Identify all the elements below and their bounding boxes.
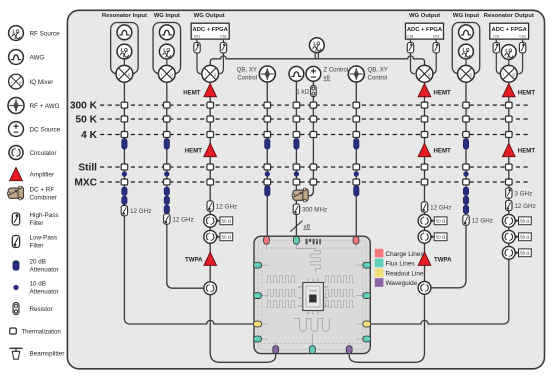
high-pass filter WG output left ch1 xyxy=(194,43,200,53)
legend Thermalization xyxy=(10,328,61,336)
thermalization col E 50 K xyxy=(293,116,300,122)
legend Circulator xyxy=(9,145,56,159)
svg-text:4 K: 4 K xyxy=(81,130,97,141)
thermalization col G 300 K xyxy=(353,102,360,108)
svg-text:Readout Line: Readout Line xyxy=(386,270,424,277)
legend Beamsplitter xyxy=(10,348,65,359)
svg-text:3 GHz: 3 GHz xyxy=(514,190,532,197)
ADC+FPGA box WG output right xyxy=(406,23,444,39)
thermalization col C Still xyxy=(207,164,214,170)
chip port left readout xyxy=(254,321,262,327)
chip port traces xyxy=(261,244,363,345)
svg-text:HEMT: HEMT xyxy=(434,148,452,155)
20dB attenuator col I 4K xyxy=(463,139,468,150)
wire WG output right line xyxy=(349,82,424,362)
chip port top charge left xyxy=(264,236,270,244)
chip legend Flux Lines xyxy=(375,259,415,268)
ADC+FPGA box WG output left xyxy=(191,23,229,39)
thermalization col J 4 K xyxy=(506,132,513,138)
thermalization col I 50 K xyxy=(463,116,470,122)
RF source WG input left xyxy=(159,44,174,59)
10dB attenuator col I xyxy=(464,172,469,177)
chip port bottom flux xyxy=(310,346,316,354)
chip inner trace loop xyxy=(262,248,363,344)
svg-text:300 K: 300 K xyxy=(70,101,98,112)
thermalization col I 4 K xyxy=(463,132,470,138)
thermalization col J Still xyxy=(506,164,513,170)
high-pass filter resonator output ch2 xyxy=(519,43,525,53)
wire WG input left line xyxy=(167,82,204,288)
DC+RF combiner flux xyxy=(292,188,308,202)
10dB attenuator col D xyxy=(265,172,270,177)
AWG resonator input xyxy=(117,25,132,40)
TWPA amplifier right xyxy=(418,252,452,265)
svg-text:ADC + FPGA: ADC + FPGA xyxy=(193,27,229,33)
HEMT amplifier WG output left 4K xyxy=(185,143,217,156)
circulator WG output right 1 xyxy=(418,214,447,227)
chip port right flux 2 xyxy=(363,293,371,299)
legend RF Source xyxy=(9,26,60,41)
svg-text:Thermalization: Thermalization xyxy=(22,330,61,336)
stage line 50 K xyxy=(75,115,531,126)
high-pass filter WG output right ch2 xyxy=(433,43,439,53)
svg-text:ADC + FPGA: ADC + FPGA xyxy=(407,27,443,33)
chip port right flux 1 xyxy=(363,262,371,268)
HEMT amplifier resonator output 300K xyxy=(503,84,536,97)
circulator WG output right 2 xyxy=(418,230,447,243)
x8 bundle marker flux xyxy=(290,221,310,232)
svg-text:10 dB: 10 dB xyxy=(30,281,46,288)
svg-text:WG Output: WG Output xyxy=(409,13,440,19)
thermalization col I Still xyxy=(463,164,470,170)
svg-text:Resonator Output: Resonator Output xyxy=(484,13,534,19)
chip port right readout xyxy=(363,321,371,327)
chip port left flux 3 xyxy=(254,336,262,342)
wire resonator input line xyxy=(124,82,253,324)
IQ mixer WG output right xyxy=(416,65,433,82)
svg-text:IQ Mixer: IQ Mixer xyxy=(30,79,54,86)
thermalization col G Still xyxy=(353,164,360,170)
RF source WG input right xyxy=(459,44,474,59)
chip port top flux xyxy=(294,236,300,244)
20dB attenuator col E 4K xyxy=(294,139,299,150)
svg-text:12 GHz: 12 GHz xyxy=(130,208,151,215)
chip resonator meanders row1 xyxy=(266,276,355,283)
10dB attenuator col A xyxy=(122,172,127,177)
20dB attenuator col B 4K xyxy=(164,139,169,150)
RF+AWG qubit XY control right xyxy=(348,66,388,82)
svg-text:EQuS: EQuS xyxy=(309,289,317,293)
circulator WG output left 1 xyxy=(204,214,233,227)
stage line MXC xyxy=(74,178,531,189)
svg-text:Ch1: Ch1 xyxy=(493,35,499,39)
svg-text:Combiner: Combiner xyxy=(30,195,57,202)
IQ mixer resonator output xyxy=(500,65,517,82)
thermalization col E 300 K xyxy=(293,102,300,108)
thermalization col D MXC xyxy=(264,179,271,185)
HEMT amplifier WG output left 300K xyxy=(183,84,216,97)
wires filters to mixer WG output right xyxy=(411,53,437,74)
thermalization col H 50 K xyxy=(421,116,428,122)
wire WG input right line xyxy=(431,82,466,288)
chip port bottom waveguide right xyxy=(346,346,352,354)
thermalization col H 4 K xyxy=(421,132,428,138)
thermalization col F Still xyxy=(310,164,317,170)
low-pass filter col C 12GHz xyxy=(207,201,237,211)
circulator resonator output 1 xyxy=(502,214,531,227)
svg-text:300 MHz: 300 MHz xyxy=(302,207,327,214)
thermalization col C 300 K xyxy=(207,102,214,108)
wire resonator output line xyxy=(370,82,508,324)
svg-text:HEMT: HEMT xyxy=(434,89,452,96)
svg-text:WG Output: WG Output xyxy=(194,13,225,19)
chip MIT logo xyxy=(306,239,321,245)
IQ mixer resonator input xyxy=(116,65,133,82)
legend Low-Pass Filter xyxy=(12,235,57,250)
wires filters to mixer resonator output xyxy=(496,53,522,74)
thermalization col E Still xyxy=(293,164,300,170)
svg-text:Ch2: Ch2 xyxy=(433,35,439,39)
wire LO stubs xyxy=(315,53,318,59)
svg-text:RF Source: RF Source xyxy=(30,31,61,38)
svg-text:HEMT: HEMT xyxy=(518,89,536,96)
circulator resonator output 3 xyxy=(502,246,531,259)
thermalization col J 300 K xyxy=(506,102,513,108)
svg-text:TWPA: TWPA xyxy=(185,256,203,263)
svg-text:HEMT: HEMT xyxy=(185,148,203,155)
HEMT amplifier resonator output 4K xyxy=(503,143,536,156)
20dB attenuator col I MXC 1 xyxy=(463,187,468,195)
svg-text:20 dB: 20 dB xyxy=(30,259,46,266)
chip PCB body xyxy=(254,236,370,353)
RF source LO resonator output xyxy=(501,45,516,66)
thermalization col A MXC xyxy=(121,179,128,185)
10dB attenuator col G xyxy=(354,172,359,177)
thermalization col F MXC xyxy=(310,179,317,185)
chip legend Charge Lines xyxy=(375,249,424,258)
legend IQ Mixer xyxy=(9,74,54,89)
chip port left flux 2 xyxy=(254,293,262,299)
svg-text:Low-Pass: Low-Pass xyxy=(30,235,58,242)
20dB attenuator col A 4K xyxy=(122,139,127,150)
svg-text:TWPA: TWPA xyxy=(434,256,452,263)
chip resonator meanders row2 xyxy=(266,290,355,297)
low-pass filter col A 12GHz xyxy=(121,205,151,215)
chip central qubit square xyxy=(298,279,329,315)
legend 20 dB Attenuator xyxy=(13,259,59,274)
svg-text:12 GHz: 12 GHz xyxy=(472,217,493,224)
AWG WG input right xyxy=(459,25,474,40)
svg-text:Control: Control xyxy=(237,75,257,82)
20dB attenuator col G MXC xyxy=(354,186,359,197)
thermalization col J 50 K xyxy=(506,116,513,122)
20dB attenuator col A MXC 1 xyxy=(122,187,127,195)
20dB attenuator col D 4K xyxy=(265,139,270,150)
wires filters to mixer WG output left xyxy=(197,53,223,74)
svg-text:DC + RF: DC + RF xyxy=(30,187,55,194)
stage line Still xyxy=(78,163,531,174)
legend Resistor xyxy=(13,303,53,315)
chip waveguide meanders bottom xyxy=(294,319,329,346)
20dB attenuator col A MXC 2 xyxy=(122,196,127,204)
thermalization col A 300 K xyxy=(121,102,128,108)
IQ mixer WG input right xyxy=(458,65,475,82)
svg-text:Ch1: Ch1 xyxy=(194,35,200,39)
AWG WG input left xyxy=(159,25,174,40)
svg-text:Resistor: Resistor xyxy=(30,306,53,313)
thermalization col F 50 K xyxy=(310,116,317,122)
svg-text:WG Input: WG Input xyxy=(453,13,479,19)
chip port right flux 3 xyxy=(363,336,371,342)
svg-text:Attenuator: Attenuator xyxy=(30,289,59,296)
thermalization col E MXC xyxy=(293,179,300,185)
wire charge line right xyxy=(355,82,357,237)
thermalization col B MXC xyxy=(164,179,171,185)
svg-text:Ch2: Ch2 xyxy=(220,35,226,39)
svg-text:RF + AWG: RF + AWG xyxy=(30,103,60,110)
svg-text:QB, XY: QB, XY xyxy=(237,67,257,74)
thermalization col G 50 K xyxy=(353,116,360,122)
IQ mixer WG input left xyxy=(158,65,175,82)
thermalization col C 4 K xyxy=(207,132,214,138)
svg-text:Ch2: Ch2 xyxy=(519,35,525,39)
svg-text:Circulator: Circulator xyxy=(30,150,57,157)
wire charge line left xyxy=(266,82,268,237)
thermalization col B 4 K xyxy=(164,132,171,138)
wires ADC to filters WG output right xyxy=(411,39,437,43)
thermalization col I MXC xyxy=(463,179,470,185)
high-pass filter resonator output ch1 xyxy=(493,43,499,53)
20dB attenuator col I MXC 2 xyxy=(463,196,468,204)
stage line 4 K xyxy=(81,130,531,141)
circulator waveguide left xyxy=(204,282,217,295)
svg-text:1 kΩ: 1 kΩ xyxy=(296,88,309,95)
thermalization col G 4 K xyxy=(353,132,360,138)
wires ADC to filters resonator output xyxy=(496,39,522,43)
wire flux line below combiner xyxy=(295,200,297,237)
chip legend Readout Line xyxy=(375,268,424,277)
thermalization col D Still xyxy=(264,164,271,170)
svg-text:ADC + FPGA: ADC + FPGA xyxy=(492,27,528,33)
thermalization col H Still xyxy=(421,164,428,170)
svg-text:Charge Lines: Charge Lines xyxy=(386,251,424,258)
10dB attenuator col B xyxy=(164,172,169,177)
wire LO distribution xyxy=(210,56,424,65)
svg-text:12 GHz: 12 GHz xyxy=(172,216,193,223)
thermalization col A 50 K xyxy=(121,116,128,122)
HEMT amplifier WG output right 300K xyxy=(418,84,451,97)
svg-text:DC Source: DC Source xyxy=(30,127,61,134)
svg-text:Filter: Filter xyxy=(30,220,44,227)
svg-text:12 GHz: 12 GHz xyxy=(514,203,535,210)
thermalization col D 4 K xyxy=(264,132,271,138)
source box resonator input xyxy=(111,23,138,74)
chip port top charge right xyxy=(353,236,359,244)
svg-text:Flux Lines: Flux Lines xyxy=(386,261,415,268)
legend RF + AWG xyxy=(8,98,60,114)
thermalization col B 50 K xyxy=(164,116,171,122)
svg-text:Z Control: Z Control xyxy=(324,68,349,74)
DC source flux xyxy=(306,66,348,81)
RF source LO center xyxy=(309,38,324,53)
thermalization col B 300 K xyxy=(164,102,171,108)
IQ mixer WG output left xyxy=(202,65,219,82)
source box WG input right xyxy=(452,23,480,74)
thermalization col G MXC xyxy=(353,179,360,185)
thermalization col I 300 K xyxy=(463,102,470,108)
legend DC + RF Combiner xyxy=(7,186,57,202)
thermalization col F 4 K xyxy=(310,132,317,138)
high-pass filter WG output right ch1 xyxy=(407,43,413,53)
legend AWG xyxy=(9,50,45,65)
AWG flux xyxy=(289,66,304,81)
svg-text:WG Input: WG Input xyxy=(154,13,180,19)
wires ADC to filters WG output left xyxy=(197,39,223,43)
source box WG input left xyxy=(153,23,181,74)
svg-text:Control: Control xyxy=(368,75,388,82)
svg-text:Beamsplitter: Beamsplitter xyxy=(30,351,65,358)
svg-text:12 GHz: 12 GHz xyxy=(216,203,237,210)
svg-text:QB, XY: QB, XY xyxy=(368,67,388,74)
thermalization col D 300 K xyxy=(264,102,271,108)
svg-text:Waveguide: Waveguide xyxy=(386,280,418,287)
20dB attenuator col B MXC 2 xyxy=(164,196,169,204)
svg-text:12 GHz: 12 GHz xyxy=(430,204,451,211)
svg-text:AWG: AWG xyxy=(30,55,45,62)
chip flux feed meander xyxy=(296,244,320,272)
20dB attenuator col I MXC 3 xyxy=(463,205,468,213)
svg-text:High-Pass: High-Pass xyxy=(30,212,59,219)
svg-text:50 K: 50 K xyxy=(75,115,97,126)
20dB attenuator col D MXC xyxy=(265,186,270,197)
chip resonator meanders row3 xyxy=(266,301,355,308)
chip port bottom waveguide left xyxy=(273,346,279,354)
resistor 1 kOhm xyxy=(296,85,316,96)
20dB attenuator col G 4K xyxy=(354,139,359,150)
svg-text:Attenuator: Attenuator xyxy=(30,267,59,274)
thermalization col A Still xyxy=(121,164,128,170)
20dB attenuator col B MXC 1 xyxy=(164,187,169,195)
TWPA amplifier left xyxy=(185,252,217,265)
low-pass filter col H 12GHz xyxy=(421,202,451,212)
low-pass filter flux 300MHz xyxy=(293,204,327,214)
thermalization col E 4 K xyxy=(293,132,300,138)
thermalization col A 4 K xyxy=(121,132,128,138)
circulator WG output left 2 xyxy=(204,230,233,243)
svg-text:HEMT: HEMT xyxy=(518,148,536,155)
thermalization col C MXC xyxy=(207,179,214,185)
svg-text:Filter: Filter xyxy=(30,243,44,250)
legend Amplifier xyxy=(10,167,54,180)
RF+AWG qubit XY control left xyxy=(237,66,276,82)
thermalization col H MXC xyxy=(421,179,428,185)
10dB attenuator col E xyxy=(294,172,299,177)
svg-text:MXC: MXC xyxy=(74,178,97,189)
circulator waveguide right xyxy=(418,281,431,294)
chip legend Waveguide xyxy=(375,278,418,287)
HEMT amplifier WG output right 4K xyxy=(418,143,451,156)
ADC+FPGA box resonator output xyxy=(490,23,529,39)
low-pass filter col J 12GHz xyxy=(506,200,536,210)
thermalization col F 300 K xyxy=(310,102,317,108)
circulator resonator output 2 xyxy=(502,230,531,243)
low-pass filter col I 12GHz xyxy=(463,215,493,225)
legend 10 dB Attenuator xyxy=(14,281,59,296)
high-pass filter WG output left ch2 xyxy=(220,43,226,53)
legend High-Pass Filter xyxy=(12,212,58,227)
high-pass filter col J 3GHz xyxy=(506,188,533,198)
stage line 300 K xyxy=(70,101,531,112)
thermalization col J MXC xyxy=(506,179,513,185)
chip port left flux 1 xyxy=(254,262,262,268)
wire flux AWG line xyxy=(295,81,297,190)
wire flux DC line xyxy=(309,81,314,196)
thermalization col D 50 K xyxy=(264,116,271,122)
svg-text:Still: Still xyxy=(78,163,97,174)
svg-text:Ch1: Ch1 xyxy=(407,35,413,39)
thermalization col C 50 K xyxy=(207,116,214,122)
thermalization col H 300 K xyxy=(421,102,428,108)
RF source resonator input xyxy=(117,44,132,59)
wire WG output left line xyxy=(210,82,276,362)
thermalization col B Still xyxy=(164,164,171,170)
svg-text:Amplifier: Amplifier xyxy=(30,172,55,179)
low-pass filter col B 12GHz xyxy=(164,214,194,224)
20dB attenuator col B MXC 3 xyxy=(164,205,169,213)
legend DC Source xyxy=(9,122,61,137)
svg-text:Resonator Input: Resonator Input xyxy=(102,13,147,19)
svg-text:HEMT: HEMT xyxy=(183,89,201,96)
